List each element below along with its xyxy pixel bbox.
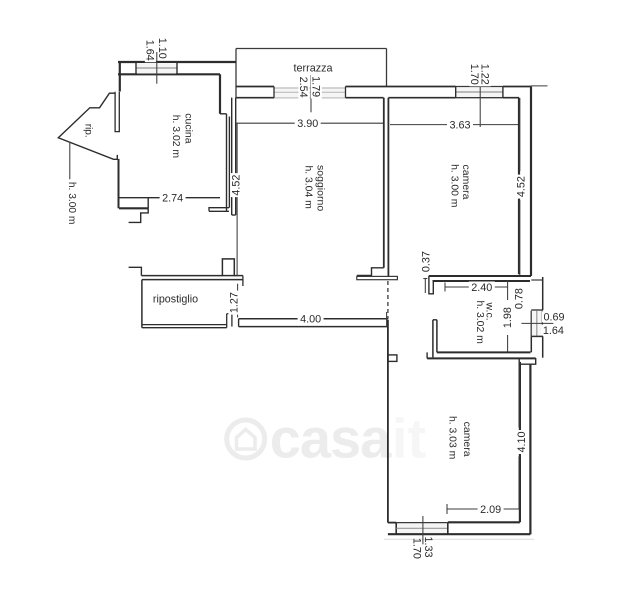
dim 0.78 tick [514,302,519,307]
soggiorno left wall double [231,98,233,215]
svg-text:h. 3.02 m: h. 3.02 m [474,300,485,343]
svg-text:2.40: 2.40 [471,282,492,294]
svg-text:ripostiglio: ripostiglio [153,293,198,305]
ripostiglio top wall right part [234,275,243,277]
svg-text:cucina: cucina [182,113,194,144]
cucina door jamb stub [115,92,119,132]
svg-text:0.78: 0.78 [514,288,526,309]
dim text 4.52 right [515,175,526,199]
camera bottom faint outer line [384,538,534,540]
window W4 jamb [447,523,449,535]
camera bottom wall inner line [448,521,520,523]
dim text 1.98 [502,306,513,330]
dim text 1.10 [158,36,169,60]
cucina left wall upper [119,62,121,92]
top wall outer segment a [236,86,274,88]
svg-text:h. 3.00 m: h. 3.00 m [449,164,460,207]
svg-text:h. 3.02 m: h. 3.02 m [170,115,181,158]
top wall outer thin extension right [531,85,548,87]
dim 4.10 line [518,362,520,428]
ripostiglio top wall [141,275,222,277]
divider wall left line [383,98,385,268]
cucina bottom wall bottom line [119,207,148,209]
door leaf rip. (swing) [58,93,118,159]
wc top wall [429,275,531,277]
dim 1.33/1.70 leader [422,516,424,544]
wc left stub 0.37 [429,276,433,294]
dim 1.98 line [507,280,509,300]
window W1 mid line [136,67,177,69]
camera right wall outer [530,87,532,277]
dim text 0.78 [513,287,524,311]
ripostiglio door jamb tick [242,276,244,286]
chimney bump [222,259,234,276]
svg-text:1.64: 1.64 [144,40,156,61]
svg-text:it: it [392,407,426,470]
window W3 0.69/1.64 fill [532,311,542,337]
dim 0.69/1.64 leader [521,322,553,324]
wc niche cap [531,309,542,311]
dim 2.09 left tick [446,504,448,514]
wc niche right wall [542,277,544,310]
divider wall right line [387,98,389,277]
terrace door gray lines [274,87,346,97]
dim text 2.54 [298,75,309,99]
dim 1.10 1.64 leader [156,52,158,84]
window W2 1.22 fill [457,88,502,98]
window W2 lines [456,86,503,88]
svg-text:3.63: 3.63 [449,119,470,131]
svg-text:.: . [377,407,393,470]
dim 1.22 1.70 leader [479,84,481,127]
camera bottom left corner [388,522,396,524]
svg-text:soggiorno: soggiorno [314,165,326,211]
camera right wall inner [518,98,520,275]
hall wall top line / dim 4.00 [239,318,388,320]
top wall inner segment c [388,97,455,99]
svg-text:1.70: 1.70 [468,64,480,85]
cucina right wall upper [219,74,221,114]
dim 2.40 line [445,286,508,288]
svg-text:1.27: 1.27 [229,292,241,313]
wc bottom wall bottom line [427,357,536,359]
dim 4.00 right tick [386,312,388,327]
svg-text:4.00: 4.00 [300,314,321,326]
window W1 1.10 fill [137,63,176,74]
ripostiglio door jambs [226,314,228,328]
dim text 4.10 [516,430,527,454]
terrazza outline [236,48,387,50]
step below cucina [129,208,149,222]
window W1 jambs [135,62,137,74]
ripostiglio left wall [141,280,143,328]
svg-text:4.52: 4.52 [230,175,242,196]
svg-text:1.79: 1.79 [310,76,322,97]
wc bottom wall right nib [519,358,536,364]
svg-text:h. 3.00 m: h. 3.00 m [66,182,77,224]
svg-text:2.09: 2.09 [480,504,501,516]
wc left wall lower [432,320,434,358]
cucina bottom right wall stub [209,208,229,212]
camera bottom left wall [387,320,389,523]
ripostiglio bottom wall [142,324,227,326]
svg-text:camera: camera [461,422,473,457]
wc niche top line [531,279,542,281]
hall dashed line [387,281,389,319]
top wall inner segment b [346,97,384,99]
dim text 1.70 [469,62,480,86]
svg-text:0.37: 0.37 [420,251,432,272]
dim 2.09 line [447,508,521,510]
dim 1.27 line [237,284,239,318]
svg-text:1.33: 1.33 [422,536,434,557]
svg-text:camera: camera [460,164,472,199]
svg-text:h. 3.04 m: h. 3.04 m [302,165,313,208]
dim line 3.63 [390,124,519,126]
cucina top wall inner line [118,73,220,75]
window W4 1.33 fill [397,524,447,534]
dim 4.52 left line [236,123,238,276]
dim text 4.52 left [230,173,241,197]
svg-text:4.52: 4.52 [515,176,527,197]
window W4 lines [396,522,448,524]
dim text 1.79 [311,75,322,99]
leader h 3.00 [69,142,71,179]
hall wall bottom line [239,326,388,328]
terrazza right edge [386,49,388,87]
terrace door jambs [273,87,275,98]
top wall outer segment c [503,86,531,88]
svg-text:2.54: 2.54 [297,77,309,98]
svg-text:2.74: 2.74 [162,192,183,204]
soggiorno left wall bottom cap [232,214,236,216]
svg-text:4.10: 4.10 [516,431,528,452]
svg-text:1.10: 1.10 [156,38,168,59]
ripostiglio entry stub [129,267,142,275]
dim text 1.64 right [541,325,565,336]
dim text 0.69 [542,311,566,322]
dim text 1.64 [145,38,156,62]
cucina bottom wall top line / dim 2.74 [119,197,220,199]
terrazza left edge [235,49,237,98]
top wall inner segment d [503,97,519,99]
window W3 bottom cap [531,335,542,337]
dim 0.37 bracket [424,279,426,294]
dim 2.40 left tick [444,283,446,292]
watermark casa.it logo [227,407,426,470]
svg-text:terrazza: terrazza [293,62,332,74]
cucina right wall lower double [226,114,228,212]
dim 0.78 line [515,288,517,309]
svg-text:h. 3.03 m: h. 3.03 m [447,416,458,459]
cucina right wall jog [220,113,227,115]
dim text 1.27 [228,291,239,315]
dim 1.79 2.54 leader [310,75,312,112]
dim 4.52 right line [519,98,521,171]
dim line 3.90 [237,122,384,124]
svg-text:0.69: 0.69 [543,312,564,324]
hall wall left cap [238,319,240,327]
wc bottom wall top line [437,351,531,353]
svg-text:3.90: 3.90 [297,118,318,130]
cucina top wall outer line [118,61,236,63]
top wall outer segment b [346,86,456,88]
cucina bottom door jamb [147,198,149,209]
cucina left wall lower [118,159,120,208]
camera bottom wall outer line [388,533,531,535]
window W3 lines [530,311,532,337]
wall below window W3 [530,336,532,352]
dim text 1.22 [480,62,491,86]
soggiorno door threshold [357,276,398,279]
camera bottom right wall [519,362,521,522]
svg-text:1.70: 1.70 [411,538,423,559]
camera bottom left nib [388,355,397,362]
window W2 jambs [455,87,457,98]
divider step [357,268,384,276]
svg-text:1.98: 1.98 [502,307,514,328]
svg-text:rip.: rip. [83,124,94,138]
svg-text:casa: casa [270,407,392,470]
dim text 0.37 [420,250,431,274]
top wall inner segment a [236,97,274,99]
svg-text:1.64: 1.64 [543,325,564,337]
